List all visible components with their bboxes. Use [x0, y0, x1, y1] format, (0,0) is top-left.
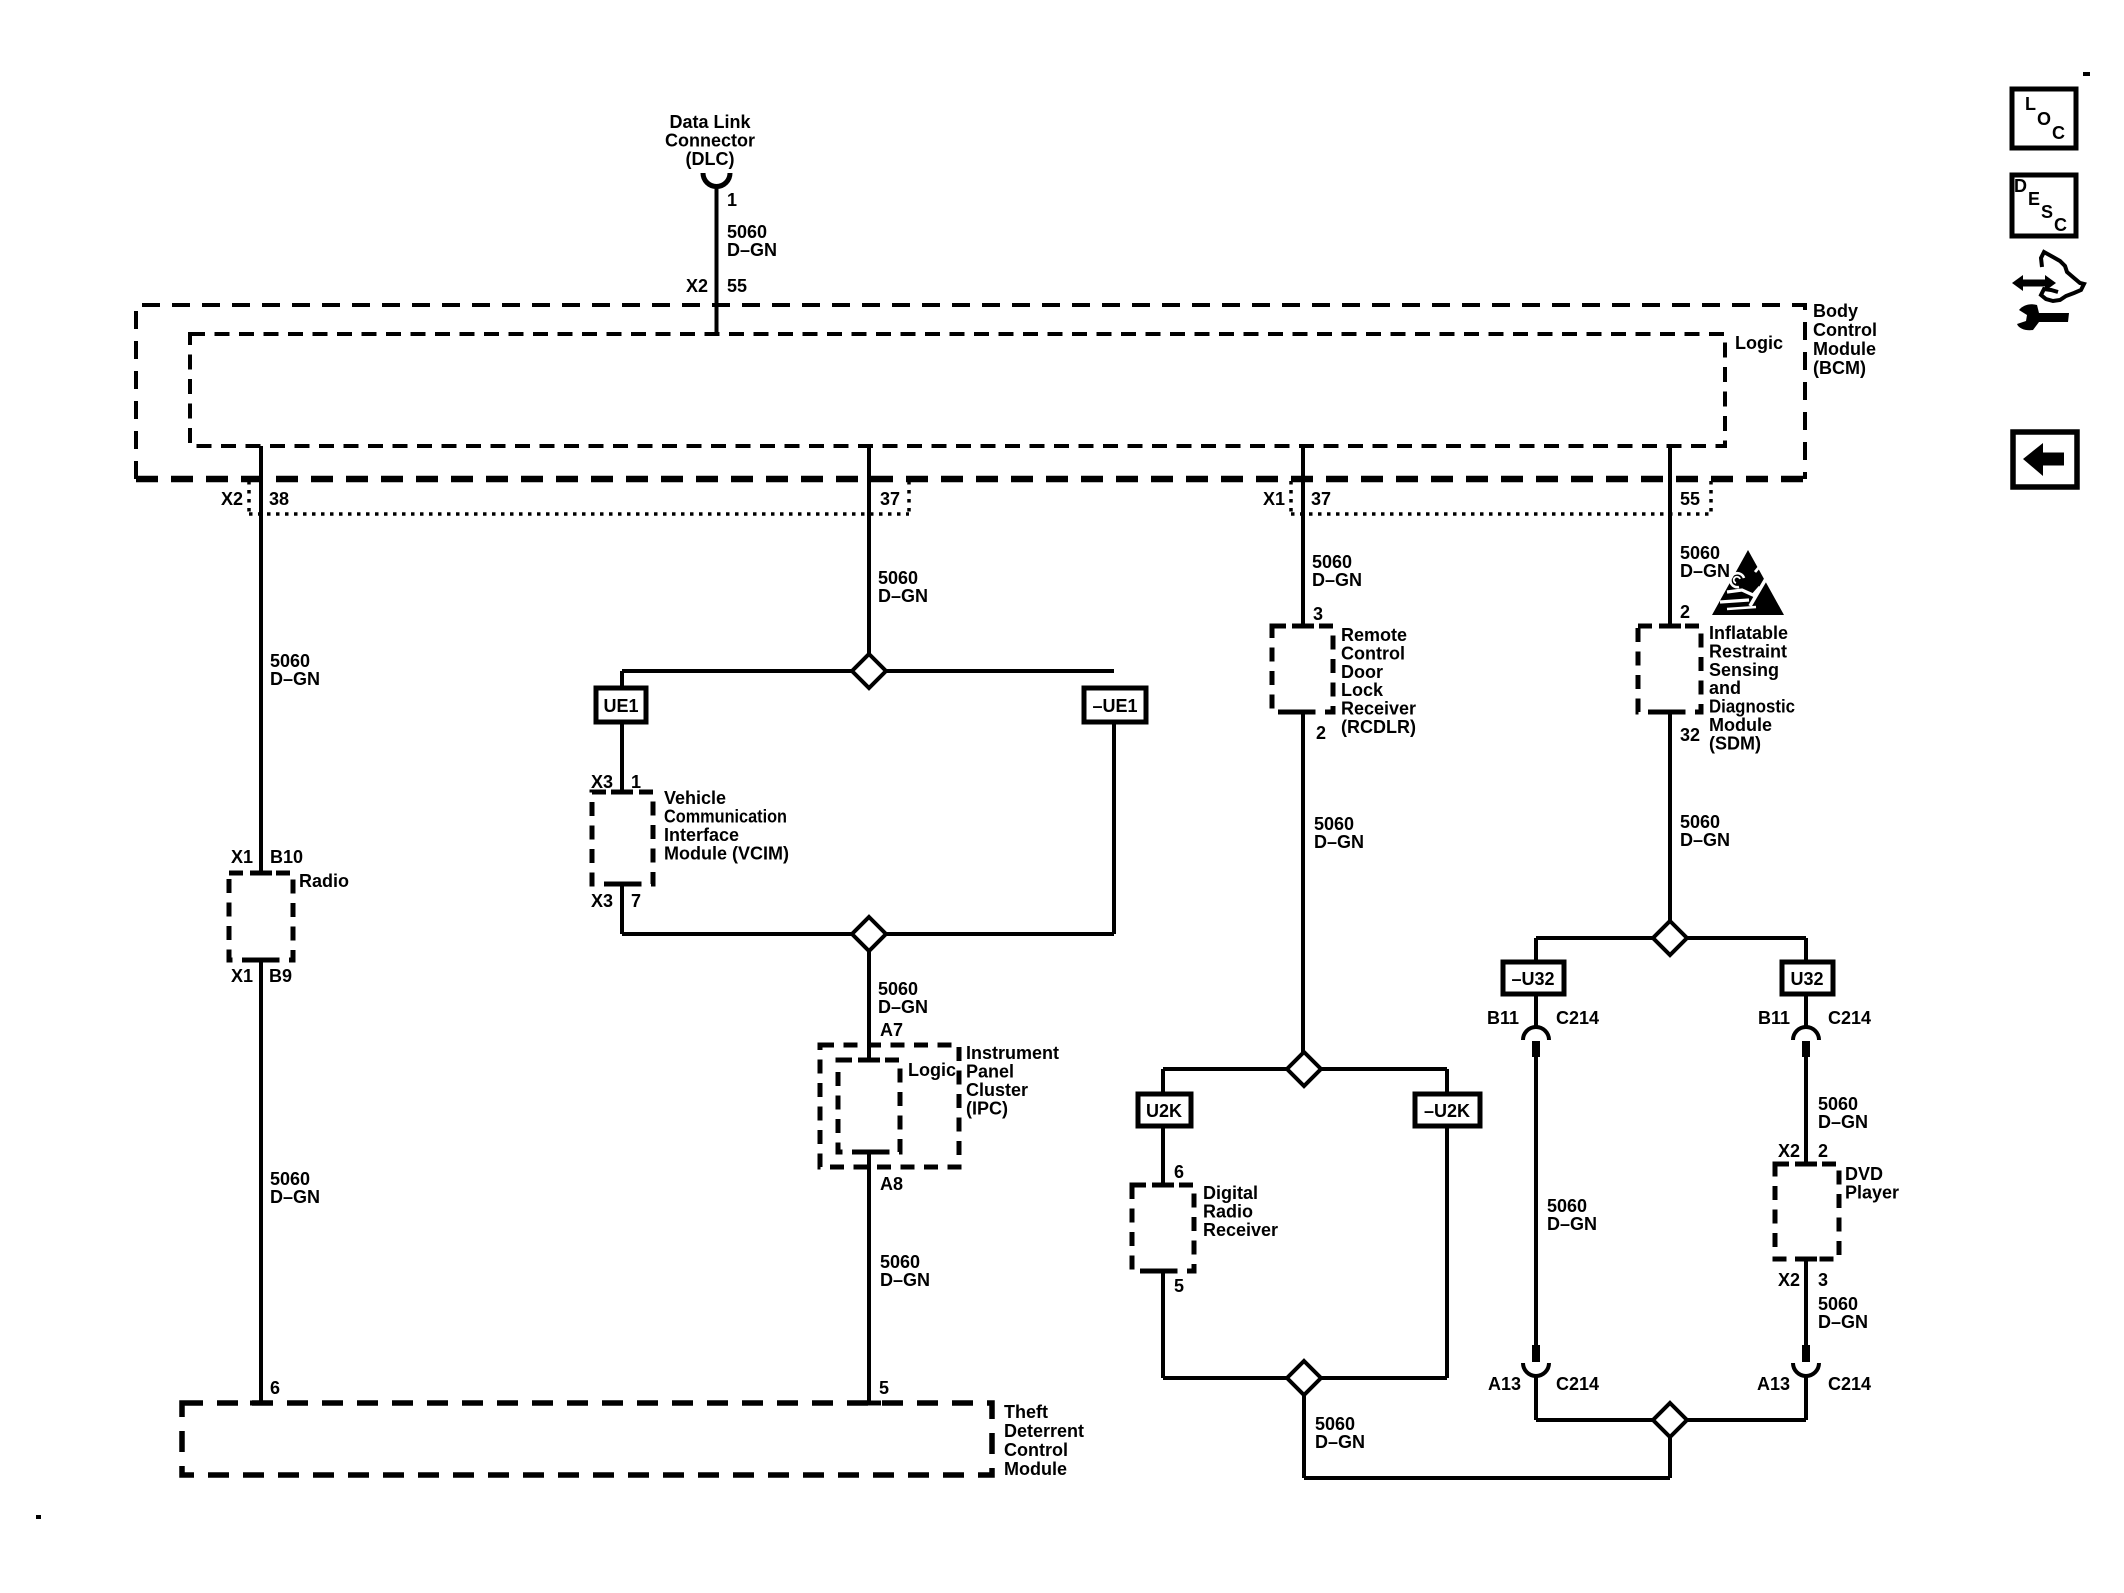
wire Radio B9 to Theft Deterrent Control Module pin 6	[259, 960, 263, 1403]
svg-text:5: 5	[1174, 1276, 1184, 1296]
svg-text:3: 3	[1313, 604, 1323, 624]
terminal tick VCIM bottom	[611, 882, 633, 887]
svg-text:Module: Module	[1709, 715, 1772, 735]
svg-text:Diagnostic: Diagnostic	[1709, 697, 1795, 717]
svg-text:C214: C214	[1828, 1008, 1871, 1028]
splice diamond (bottom link)	[1653, 1403, 1687, 1437]
bottom link horizontal wire	[1536, 1418, 1806, 1422]
svg-text:D–GN: D–GN	[1315, 1432, 1365, 1452]
wire -U32 to C214 B11	[1534, 994, 1538, 1029]
svg-text:D–GN: D–GN	[727, 240, 777, 260]
svg-text:32: 32	[1680, 725, 1700, 745]
svg-text:A13: A13	[1488, 1374, 1521, 1394]
wire RCDLR pin 2 to DRR splice	[1301, 712, 1305, 1052]
wire bottom link to C214 splice	[1304, 1476, 1670, 1480]
DRR loop right upper stub	[1445, 1069, 1449, 1094]
svg-text:5060: 5060	[1818, 1294, 1858, 1314]
svg-text:Cluster: Cluster	[966, 1080, 1028, 1100]
svg-text:X2: X2	[1778, 1141, 1800, 1161]
inline connector C214 B11 (socket and pin)	[1523, 1027, 1549, 1040]
svg-text:X2: X2	[221, 489, 243, 509]
svg-text:5060: 5060	[1312, 552, 1352, 572]
svg-text:Player: Player	[1845, 1183, 1899, 1203]
svg-text:D–GN: D–GN	[1818, 1112, 1868, 1132]
wire DRR splice down	[1302, 1395, 1306, 1478]
terminal tick IPC logic bottom	[858, 1150, 880, 1155]
svg-text:E: E	[2028, 189, 2040, 209]
svg-text:Vehicle: Vehicle	[664, 788, 726, 808]
svg-text:Theft: Theft	[1004, 1402, 1048, 1422]
BCM logic inner dashed box	[190, 334, 1725, 446]
svg-text:–U32: –U32	[1511, 969, 1554, 989]
wire SDM pin 32 to U32 splice	[1668, 712, 1672, 921]
terminal tick DVD bottom	[1795, 1257, 1817, 1262]
svg-text:D–GN: D–GN	[1312, 570, 1362, 590]
terminal tick IPC logic top	[858, 1058, 880, 1063]
svg-text:5060: 5060	[880, 1252, 920, 1272]
U32 splice horizontal wire	[1536, 936, 1806, 940]
wire BCM X1-55 to SDM pin 2	[1668, 446, 1672, 626]
svg-text:5060: 5060	[1314, 814, 1354, 834]
wire VCIM splice to IPC A7	[867, 951, 871, 1060]
inline connector C214 A13 (pin and socket)	[1532, 1345, 1540, 1362]
icon back arrow button	[2013, 432, 2077, 487]
svg-text:(SDM): (SDM)	[1709, 733, 1761, 753]
svg-text:5: 5	[879, 1378, 889, 1398]
wire C214 B11 to C214 A13	[1534, 1057, 1538, 1345]
module Theft Deterrent Control Module dashed box	[182, 1403, 992, 1475]
wire C214 B11 to DVD X2-2	[1804, 1057, 1808, 1164]
net -U2K box	[1415, 1094, 1480, 1126]
splice diamond (top of VCIM loop)	[852, 654, 886, 688]
svg-text:2: 2	[1316, 723, 1326, 743]
svg-text:(BCM): (BCM)	[1813, 358, 1866, 378]
net U32 box	[1782, 962, 1833, 994]
svg-text:–U2K: –U2K	[1424, 1101, 1470, 1121]
svg-text:A8: A8	[880, 1174, 903, 1194]
VCIM loop bottom wire	[622, 932, 1114, 936]
wire U2K to DRR pin 6	[1161, 1126, 1165, 1185]
splice diamond (SDM branch)	[1653, 921, 1687, 955]
wire to U32	[1804, 938, 1808, 962]
net U2K box	[1138, 1094, 1191, 1126]
VCIM loop top wire	[622, 669, 1114, 673]
svg-text:(RCDLR): (RCDLR)	[1341, 717, 1416, 737]
svg-text:37: 37	[880, 489, 900, 509]
icon LOC button	[2012, 89, 2076, 148]
wire A13 right to bottom link	[1804, 1376, 1808, 1420]
svg-text:X1: X1	[231, 966, 253, 986]
svg-text:Control: Control	[1341, 643, 1405, 663]
net -UE1 box	[1084, 688, 1146, 722]
svg-text:Receiver: Receiver	[1341, 699, 1416, 719]
svg-text:5060: 5060	[1315, 1414, 1355, 1434]
wire UE1 to VCIM X3-1	[620, 722, 624, 792]
terminal tick SDM bottom	[1659, 710, 1681, 715]
svg-text:Data Link: Data Link	[669, 112, 751, 132]
svg-text:Digital: Digital	[1203, 1183, 1258, 1203]
svg-text:D–GN: D–GN	[880, 1270, 930, 1290]
svg-text:DVD: DVD	[1845, 1164, 1883, 1184]
svg-text:Control: Control	[1004, 1440, 1068, 1460]
module DVD Player dashed box	[1775, 1164, 1839, 1259]
DRR loop top wire	[1163, 1067, 1447, 1071]
svg-text:B11: B11	[1758, 1008, 1790, 1028]
svg-text:5060: 5060	[727, 222, 767, 242]
svg-text:Module: Module	[1004, 1459, 1067, 1479]
SIR caution triangle	[1712, 550, 1784, 615]
svg-text:C214: C214	[1828, 1374, 1871, 1394]
connector DLC symbol (half circle)	[703, 173, 730, 187]
svg-text:5060: 5060	[1680, 812, 1720, 832]
VCIM loop left wire upper stub	[620, 671, 624, 688]
net UE1 box	[596, 688, 646, 722]
terminal tick DVD top	[1795, 1162, 1817, 1167]
svg-text:L: L	[2025, 94, 2036, 114]
svg-text:3: 3	[1818, 1270, 1828, 1290]
svg-text:B10: B10	[270, 847, 303, 867]
inline connector C214 A13 right (pin and socket)	[1802, 1345, 1810, 1362]
svg-text:D–GN: D–GN	[1680, 830, 1730, 850]
svg-text:2: 2	[1680, 602, 1690, 622]
svg-text:5060: 5060	[1818, 1094, 1858, 1114]
svg-text:Sensing: Sensing	[1709, 660, 1779, 680]
svg-text:Lock: Lock	[1341, 680, 1384, 700]
svg-text:Instrument: Instrument	[966, 1043, 1059, 1063]
module RCDLR dashed box	[1272, 626, 1333, 712]
svg-text:D–GN: D–GN	[1818, 1312, 1868, 1332]
svg-text:D–GN: D–GN	[270, 669, 320, 689]
wire DLC pin 1 to BCM pin X2-55	[715, 186, 719, 334]
terminal tick SDM top	[1659, 624, 1681, 629]
terminal tick RCDLR bottom	[1292, 710, 1314, 715]
svg-text:D–GN: D–GN	[878, 997, 928, 1017]
wire DVD X2-3 to C214 A13 (right)	[1804, 1259, 1808, 1345]
svg-text:(DLC): (DLC)	[686, 149, 735, 169]
connector X1 pin row (pins 37, 55) dotted outline	[1291, 481, 1711, 514]
svg-text:1: 1	[631, 772, 641, 792]
svg-text:D–GN: D–GN	[1314, 832, 1364, 852]
terminal tick Theft box pin 6	[250, 1401, 272, 1406]
module Digital Radio Receiver dashed box	[1132, 1185, 1194, 1271]
splice diamond (bottom of VCIM loop)	[852, 917, 886, 951]
connector X2 pin row (pins 38, 37) dotted outline	[249, 481, 909, 514]
svg-text:38: 38	[269, 489, 289, 509]
svg-text:Deterrent: Deterrent	[1004, 1421, 1084, 1441]
svg-text:B9: B9	[269, 966, 292, 986]
svg-text:5060: 5060	[270, 1169, 310, 1189]
wire BCM X2-38 to Radio B10	[259, 446, 263, 873]
svg-text:C: C	[2052, 123, 2065, 143]
svg-text:Logic: Logic	[908, 1060, 956, 1080]
stray mark top right	[2083, 72, 2090, 76]
svg-text:Logic: Logic	[1735, 333, 1783, 353]
svg-text:and: and	[1709, 678, 1741, 698]
svg-text:D–GN: D–GN	[1680, 561, 1730, 581]
wire DRR pin 5 to loop bottom	[1161, 1271, 1165, 1378]
wire BCM X2-37 to VCIM splice	[867, 446, 871, 654]
svg-text:D–GN: D–GN	[878, 586, 928, 606]
svg-text:B11: B11	[1487, 1008, 1519, 1028]
svg-text:37: 37	[1311, 489, 1331, 509]
module Radio dashed box	[229, 873, 293, 960]
wire IPC A8 to Theft Deterrent Control Module pin 5	[867, 1152, 871, 1403]
svg-text:5060: 5060	[878, 979, 918, 999]
svg-text:Communication: Communication	[664, 807, 787, 827]
svg-text:Inflatable: Inflatable	[1709, 623, 1788, 643]
svg-text:5060: 5060	[1680, 543, 1720, 563]
svg-text:Control: Control	[1813, 320, 1877, 340]
wire -U2K to loop bottom	[1445, 1126, 1449, 1378]
svg-text:O: O	[2037, 109, 2051, 129]
terminal tick VCIM top	[611, 790, 633, 795]
svg-text:D: D	[2014, 176, 2027, 196]
svg-text:5060: 5060	[270, 651, 310, 671]
svg-text:X1: X1	[231, 847, 253, 867]
net -U32 box	[1503, 962, 1564, 994]
wire to -U32	[1534, 938, 1538, 962]
icon service info (double arrow, outline, wrench)	[2012, 252, 2084, 330]
icon DESC button	[2012, 175, 2076, 236]
svg-text:Module: Module	[1813, 339, 1876, 359]
svg-text:C214: C214	[1556, 1374, 1599, 1394]
module BCM outer dashed box	[136, 305, 1805, 479]
svg-text:55: 55	[1680, 489, 1700, 509]
terminal tick DRR bottom	[1152, 1269, 1174, 1274]
svg-text:D–GN: D–GN	[1547, 1214, 1597, 1234]
svg-text:2: 2	[1818, 1141, 1828, 1161]
DRR loop left upper stub	[1161, 1069, 1165, 1094]
BCM outer box bottom edge (heavy dashed)	[136, 476, 1805, 483]
svg-text:Restraint: Restraint	[1709, 641, 1787, 661]
svg-text:Module (VCIM): Module (VCIM)	[664, 844, 789, 864]
IPC logic inner dashed box	[838, 1060, 900, 1152]
terminal tick DRR top	[1152, 1183, 1174, 1188]
svg-text:6: 6	[270, 1378, 280, 1398]
module VCIM dashed box	[592, 792, 653, 884]
svg-text:X3: X3	[591, 891, 613, 911]
module SDM dashed box	[1638, 626, 1701, 712]
wire -UE1 to loop bottom	[1112, 722, 1116, 934]
wire U32 to C214 B11 (right)	[1804, 994, 1808, 1029]
svg-text:Receiver: Receiver	[1203, 1220, 1278, 1240]
svg-text:A13: A13	[1757, 1374, 1790, 1394]
wire VCIM X3-7 to loop bottom	[620, 884, 624, 934]
stray mark bottom left	[36, 1515, 41, 1519]
svg-text:Connector: Connector	[665, 131, 755, 151]
svg-text:Door: Door	[1341, 662, 1383, 682]
svg-text:X2: X2	[1778, 1270, 1800, 1290]
terminal tick Radio top	[250, 871, 272, 876]
svg-text:A7: A7	[880, 1020, 903, 1040]
svg-text:X2: X2	[686, 276, 708, 296]
svg-text:Remote: Remote	[1341, 625, 1407, 645]
splice diamond (bottom of DRR loop)	[1287, 1361, 1321, 1395]
svg-text:C214: C214	[1556, 1008, 1599, 1028]
svg-text:6: 6	[1174, 1162, 1184, 1182]
svg-text:U32: U32	[1790, 969, 1823, 989]
terminal tick RCDLR top	[1292, 624, 1314, 629]
wire BCM X1-37 to RCDLR pin 3	[1301, 446, 1305, 626]
svg-text:UE1: UE1	[603, 696, 638, 716]
svg-text:1: 1	[727, 190, 737, 210]
svg-text:U2K: U2K	[1146, 1101, 1182, 1121]
DRR loop bottom wire	[1163, 1376, 1447, 1380]
terminal tick Theft box pin 5	[859, 1401, 881, 1406]
svg-text:Radio: Radio	[299, 871, 349, 891]
svg-text:Body: Body	[1813, 301, 1858, 321]
svg-text:Panel: Panel	[966, 1062, 1014, 1082]
svg-text:(IPC): (IPC)	[966, 1099, 1008, 1119]
svg-text:X3: X3	[591, 772, 613, 792]
module IPC outer dashed box	[820, 1045, 959, 1167]
svg-text:5060: 5060	[1547, 1196, 1587, 1216]
svg-text:–UE1: –UE1	[1092, 696, 1137, 716]
inline connector C214 B11 right (socket and pin)	[1793, 1027, 1819, 1040]
svg-text:X1: X1	[1263, 489, 1285, 509]
svg-text:5060: 5060	[878, 568, 918, 588]
svg-text:Radio: Radio	[1203, 1202, 1253, 1222]
splice diamond (top of DRR loop)	[1287, 1052, 1321, 1086]
terminal tick Radio bottom	[250, 958, 272, 963]
svg-text:Interface: Interface	[664, 825, 739, 845]
wire A13 to bottom link	[1534, 1376, 1538, 1420]
svg-text:C: C	[2054, 215, 2067, 235]
svg-text:D–GN: D–GN	[270, 1187, 320, 1207]
svg-text:7: 7	[631, 891, 641, 911]
svg-text:55: 55	[727, 276, 747, 296]
svg-text:S: S	[2041, 202, 2053, 222]
